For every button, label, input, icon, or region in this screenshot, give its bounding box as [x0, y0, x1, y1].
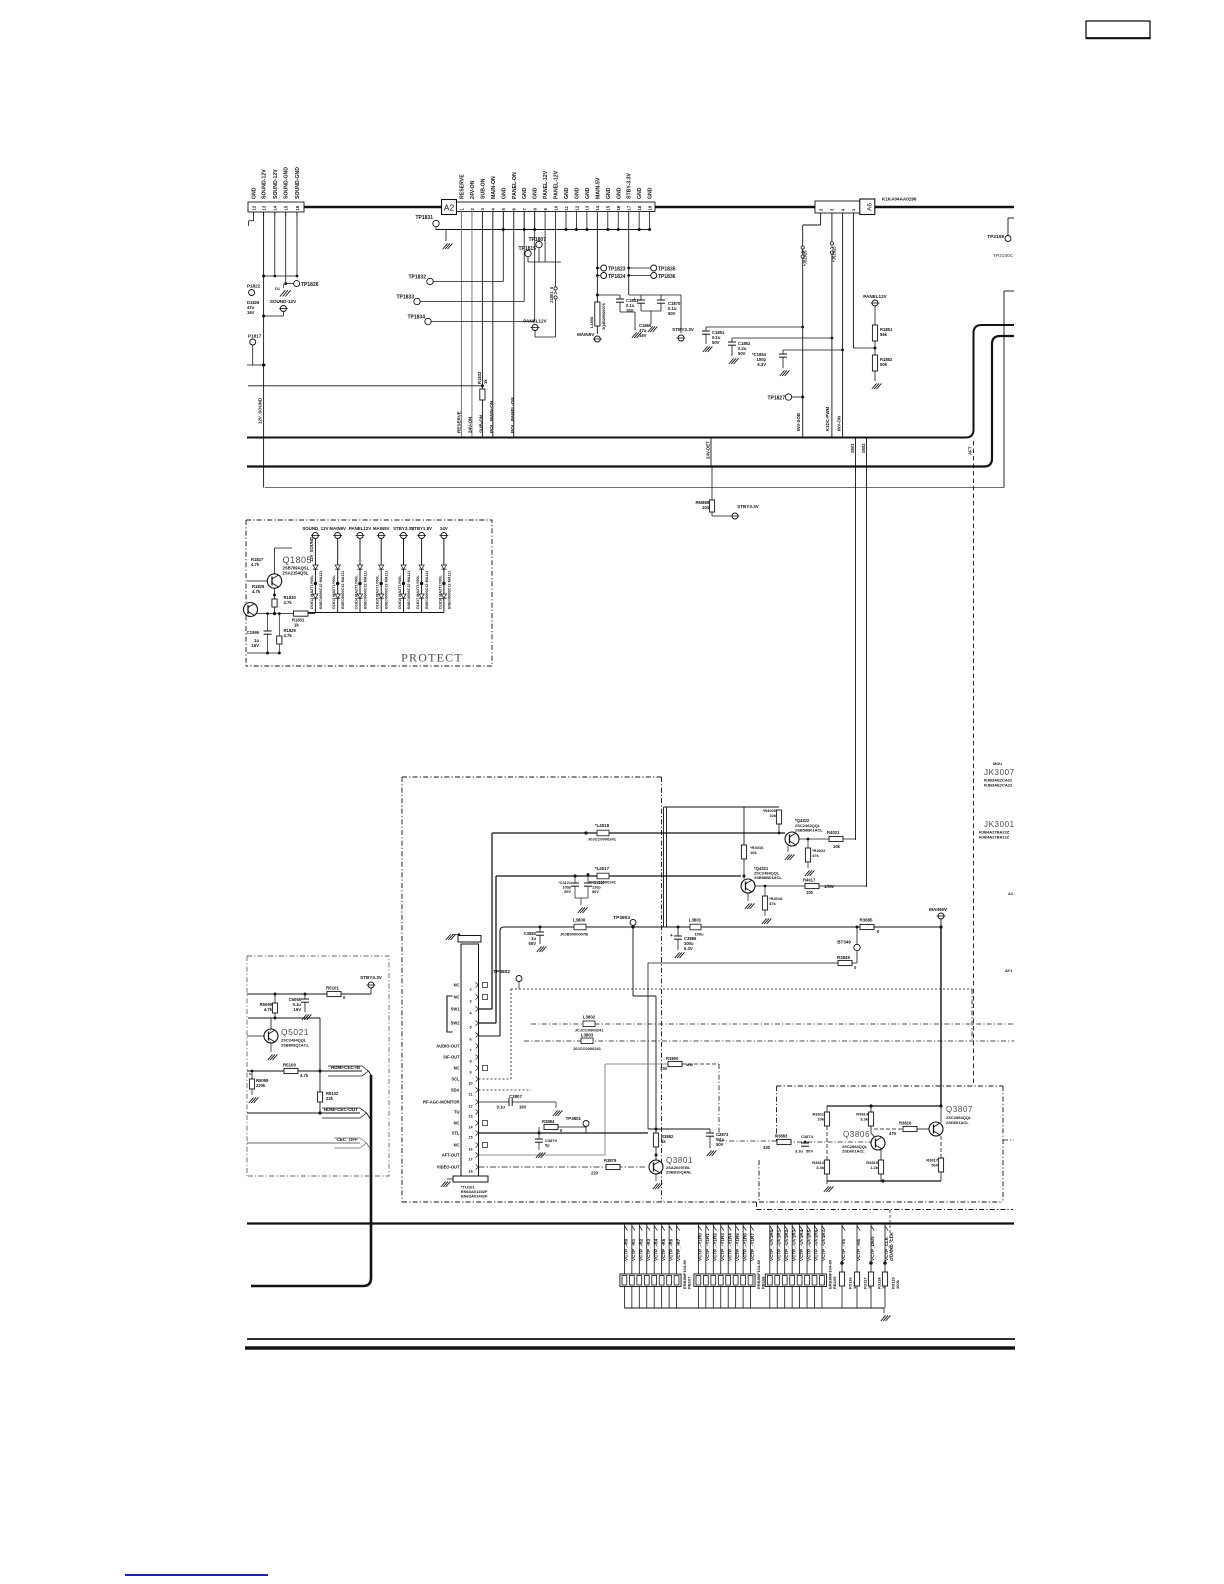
svg-text:MW: MW — [686, 1062, 693, 1067]
svg-text:13: 13 — [261, 205, 266, 210]
svg-text:D1817 MA2T1Y00L: D1817 MA2T1Y00L — [416, 575, 420, 609]
svg-text:PANEL-ON: PANEL-ON — [512, 172, 518, 199]
svg-text:4.7k: 4.7k — [284, 600, 293, 605]
svg-text:C3807: C3807 — [509, 1094, 522, 1099]
svg-text:POL_PANEL-ON: POL_PANEL-ON — [510, 397, 515, 433]
svg-text:TP1827: TP1827 — [767, 396, 785, 402]
svg-text:220k: 220k — [256, 1083, 266, 1088]
svg-text:100p: 100p — [562, 886, 571, 890]
svg-text:6: 6 — [469, 1038, 471, 1042]
svg-text:JK3007: JK3007 — [984, 768, 1015, 777]
svg-text:VCTP_-R7: VCTP_-R7 — [676, 1238, 681, 1261]
svg-text:GND: GND — [616, 187, 622, 199]
svg-text:NC: NC — [454, 1143, 460, 1148]
svg-text:D1815 MA2T1Y00L: D1815 MA2T1Y00L — [376, 575, 380, 609]
svg-text:+: + — [633, 297, 636, 303]
svg-text:2SB58B01ACL: 2SB58B01ACL — [754, 875, 782, 880]
svg-text:+: + — [670, 933, 673, 939]
svg-text:R4021: R4021 — [827, 830, 840, 835]
svg-text:12V_SOUND: 12V_SOUND — [258, 398, 263, 424]
svg-text:TP1833: TP1833 — [396, 295, 414, 301]
svg-text:K1DC-PWM: K1DC-PWM — [825, 407, 830, 431]
svg-text:3.3k: 3.3k — [860, 1117, 869, 1122]
svg-text:R3816: R3816 — [899, 1121, 912, 1126]
svg-text:VCTP_-R4: VCTP_-R4 — [653, 1238, 658, 1261]
svg-text:24V-ON: 24V-ON — [468, 416, 473, 433]
svg-text:4.7k: 4.7k — [252, 589, 261, 594]
svg-text:INV-SOB: INV-SOB — [796, 413, 801, 431]
svg-text:50V: 50V — [592, 890, 599, 894]
svg-text:MAIN-5V: MAIN-5V — [595, 177, 601, 199]
svg-text:17: 17 — [468, 1158, 472, 1162]
svg-text:R5101: R5101 — [326, 986, 339, 991]
svg-text:R3849: R3849 — [837, 955, 850, 960]
svg-text:EN63A01402F: EN63A01402F — [461, 1194, 488, 1199]
svg-text:1k: 1k — [483, 379, 488, 384]
svg-text:VCTP_-Y1R4: VCTP_-Y1R4 — [727, 1233, 732, 1261]
svg-text:P1822: P1822 — [247, 284, 261, 289]
svg-text:A2: A2 — [444, 203, 455, 213]
svg-text:C1999: C1999 — [247, 630, 260, 635]
svg-text:B0EC0000C12 MA111: B0EC0000C12 MA111 — [447, 571, 451, 609]
svg-text:10k: 10k — [769, 813, 776, 818]
svg-text:TP1832: TP1832 — [408, 275, 426, 281]
svg-text:2SB810QANL: 2SB810QANL — [666, 1170, 692, 1175]
svg-text:9: 9 — [469, 1071, 471, 1075]
svg-text:1.2k: 1.2k — [870, 1165, 879, 1170]
svg-text:PANEL12V: PANEL12V — [863, 294, 887, 299]
svg-text:220: 220 — [591, 1171, 599, 1176]
svg-text:TP1823: TP1823 — [608, 267, 626, 273]
svg-text:*J51925: *J51925 — [803, 250, 808, 266]
svg-text:TP1824: TP1824 — [608, 274, 626, 280]
svg-text:RJB4A27BA22Z: RJB4A27BA22Z — [979, 835, 1010, 840]
svg-text:2SA2154QSL: 2SA2154QSL — [283, 571, 310, 576]
svg-text:0: 0 — [560, 1128, 563, 1133]
svg-text:4.7k: 4.7k — [284, 633, 293, 638]
svg-text:GND: GND — [648, 187, 654, 199]
svg-text:INV-ON: INV-ON — [837, 416, 842, 431]
svg-text:RF-AGC-MONITOR: RF-AGC-MONITOR — [423, 1100, 460, 1105]
svg-text:24V-DET: 24V-DET — [715, 460, 716, 461]
svg-text:STBY3.3V: STBY3.3V — [672, 327, 695, 332]
svg-text:VCTP_-R2: VCTP_-R2 — [639, 1238, 644, 1261]
svg-text:VCTP_-UV1R5: VCTP_-UV1R5 — [806, 1229, 811, 1261]
svg-text:0: 0 — [854, 965, 857, 970]
svg-text:B0EC0000C12 MA111: B0EC0000C12 MA111 — [385, 571, 389, 609]
svg-text:2: 2 — [469, 988, 471, 992]
svg-text:*J51923: *J51923 — [832, 246, 837, 262]
svg-text:L3803: L3803 — [581, 1033, 594, 1038]
svg-text:16V: 16V — [247, 310, 255, 315]
svg-text:SOUND_12V: SOUND_12V — [302, 526, 328, 531]
svg-text:GND: GND — [522, 187, 528, 199]
svg-text:RB108: RB108 — [761, 1276, 766, 1289]
svg-text:TP3803: TP3803 — [613, 915, 630, 921]
svg-text:GND: GND — [585, 187, 591, 199]
svg-text:16V: 16V — [252, 643, 260, 648]
svg-text:J1801_0: J1801_0 — [549, 286, 554, 303]
svg-text:22k: 22k — [326, 1096, 334, 1101]
svg-text:R1832: R1832 — [477, 371, 482, 384]
svg-text:24V: 24V — [440, 526, 448, 531]
svg-text:SW1: SW1 — [451, 1007, 461, 1012]
svg-text:12: 12 — [468, 1105, 472, 1109]
svg-text:4.7k: 4.7k — [264, 1007, 273, 1012]
svg-text:SOUND-GND: SOUND-GND — [284, 167, 290, 199]
svg-text:L1806: L1806 — [589, 316, 594, 328]
svg-text:13: 13 — [468, 1115, 472, 1119]
svg-text:120p: 120p — [592, 886, 601, 890]
svg-text:10k: 10k — [817, 1117, 824, 1122]
svg-text:MOU: MOU — [993, 762, 1002, 766]
svg-text:RESERVE: RESERVE — [457, 411, 462, 433]
svg-text:16: 16 — [468, 1148, 472, 1152]
svg-text:GND: GND — [501, 187, 507, 199]
svg-text:330: 330 — [660, 1066, 668, 1071]
svg-text:GND: GND — [564, 187, 570, 199]
svg-text:1/5W: 1/5W — [824, 884, 834, 889]
svg-text:50V: 50V — [712, 340, 720, 345]
svg-text:47k: 47k — [812, 853, 819, 858]
svg-text:12: 12 — [251, 205, 256, 210]
svg-text:R3885: R3885 — [860, 918, 873, 923]
svg-text:TP1831: TP1831 — [415, 215, 433, 221]
svg-text:2SB58B01ACL: 2SB58B01ACL — [795, 828, 823, 833]
svg-text:50k: 50k — [880, 362, 888, 367]
svg-text:STL: STL — [452, 1131, 460, 1136]
svg-text:0.1u: 0.1u — [497, 1105, 506, 1110]
svg-text:MAIN9V: MAIN9V — [329, 526, 346, 531]
svg-text:STBY-3.3V: STBY-3.3V — [627, 173, 633, 199]
svg-text:SCL: SCL — [451, 1077, 460, 1082]
svg-text:VCTP_-V5: VCTP_-V5 — [841, 1239, 846, 1261]
svg-text:5: 5 — [469, 1026, 471, 1030]
svg-text:3: 3 — [469, 1000, 471, 1004]
svg-text:L3800: L3800 — [573, 918, 586, 923]
svg-text:2SD601ACL: 2SD601ACL — [946, 1120, 969, 1125]
svg-text:GND: GND — [606, 187, 612, 199]
svg-text:VCTP_-UV1R6: VCTP_-UV1R6 — [814, 1229, 819, 1261]
svg-text:C3874: C3874 — [801, 1134, 814, 1139]
svg-text:VCTP_-UV1R7: VCTP_-UV1R7 — [821, 1229, 826, 1261]
svg-text:5p: 5p — [545, 1143, 550, 1148]
svg-text:VCTP_-Y1R2: VCTP_-Y1R2 — [713, 1233, 718, 1261]
svg-text:VCTP_-Y1R5: VCTP_-Y1R5 — [735, 1233, 740, 1261]
svg-text:6.3V: 6.3V — [757, 362, 766, 367]
svg-text:VCTP_-R3: VCTP_-R3 — [646, 1238, 651, 1261]
svg-text:PROTECT: PROTECT — [401, 651, 463, 665]
svg-text:J0JCC0000241: J0JCC0000241 — [588, 837, 617, 842]
svg-text:B0EC0000C12 MA111: B0EC0000C12 MA111 — [425, 571, 429, 609]
svg-text:R3883: R3883 — [775, 1134, 788, 1139]
svg-text:17: 17 — [627, 205, 632, 210]
svg-text:SOUND-GND: SOUND-GND — [295, 167, 301, 199]
svg-text:AUDIO-OUT: AUDIO-OUT — [436, 1044, 460, 1049]
svg-text:6.3V: 6.3V — [684, 946, 693, 951]
svg-text:VCTP_-UV1R0: VCTP_-UV1R0 — [769, 1229, 774, 1261]
svg-text:VCTP_-UV1R2: VCTP_-UV1R2 — [784, 1229, 789, 1261]
svg-text:4.7k: 4.7k — [300, 1073, 309, 1078]
svg-text:1k: 1k — [294, 623, 299, 628]
svg-text:1k: 1k — [661, 1139, 666, 1144]
svg-text:BT349: BT349 — [837, 940, 851, 945]
svg-text:MAIN5V: MAIN5V — [373, 526, 390, 531]
svg-text:SOUND-12V: SOUND-12V — [262, 169, 268, 199]
svg-text:14: 14 — [273, 205, 278, 210]
svg-text:L3801: L3801 — [689, 918, 702, 923]
svg-text:*: * — [249, 1073, 251, 1079]
svg-text:TP1834: TP1834 — [407, 315, 425, 321]
svg-text:D1: D1 — [275, 287, 280, 291]
svg-text:D1818 MA2T1Y00L: D1818 MA2T1Y00L — [438, 575, 442, 609]
svg-text:R3879: R3879 — [604, 1158, 617, 1163]
svg-text:GND: GND — [533, 187, 539, 199]
svg-text:4.7k: 4.7k — [251, 562, 260, 567]
svg-text:0: 0 — [877, 929, 880, 934]
svg-text:18: 18 — [637, 205, 642, 210]
svg-text:560: 560 — [931, 1163, 938, 1168]
svg-text:GND: GND — [574, 187, 580, 199]
svg-text:VCTP_-R6: VCTP_-R6 — [668, 1238, 673, 1261]
svg-text:A6: A6 — [867, 203, 874, 211]
svg-text:TP2109: TP2109 — [987, 234, 1004, 240]
svg-text:*L4018: *L4018 — [595, 823, 610, 828]
svg-text:VCTP_-UV1R4: VCTP_-UV1R4 — [799, 1229, 804, 1261]
svg-text:100: 100 — [806, 890, 814, 895]
svg-text:470: 470 — [889, 1131, 897, 1136]
svg-text:15: 15 — [284, 205, 289, 210]
svg-text:PANEL-12V: PANEL-12V — [554, 170, 560, 199]
svg-text:P1817: P1817 — [248, 334, 262, 339]
svg-text:50V: 50V — [806, 1149, 813, 1154]
svg-text:RESERVE: RESERVE — [460, 174, 466, 199]
svg-text:SUB-ON: SUB-ON — [479, 414, 484, 433]
svg-text:3.3u: 3.3u — [795, 1149, 804, 1154]
svg-text:SDA: SDA — [451, 1088, 460, 1093]
svg-text:VCTP_-UV1R1: VCTP_-UV1R1 — [776, 1229, 781, 1261]
svg-text:Q1805: Q1805 — [283, 555, 313, 565]
svg-text:56k: 56k — [880, 332, 888, 337]
svg-text:PANEL12V: PANEL12V — [349, 526, 371, 531]
svg-text:STBY1.8V: STBY1.8V — [411, 526, 432, 531]
svg-text:50V: 50V — [564, 890, 571, 894]
svg-text:SW1: SW1 — [850, 443, 855, 453]
svg-text:24V-ON: 24V-ON — [470, 180, 476, 199]
svg-text:JQ4B20000076: JQ4B20000076 — [602, 303, 606, 330]
svg-text:L3802: L3802 — [583, 1015, 596, 1020]
svg-text:AFT: AFT — [968, 446, 973, 455]
svg-text:11: 11 — [564, 205, 569, 210]
svg-text:50V: 50V — [529, 941, 537, 946]
svg-text:16V: 16V — [294, 1007, 302, 1012]
svg-text:POL_MAIN-ON: POL_MAIN-ON — [489, 400, 494, 433]
svg-text:VCTP_-H5: VCTP_-H5 — [856, 1238, 861, 1261]
svg-text:STBY3.3V: STBY3.3V — [360, 975, 383, 980]
svg-text:Q5021: Q5021 — [281, 1027, 309, 1037]
svg-text:MAIN5V: MAIN5V — [577, 332, 595, 337]
svg-text:R3884: R3884 — [542, 1119, 555, 1124]
svg-text:R5100: R5100 — [283, 1063, 296, 1068]
svg-text:VCTP_-Y1R7: VCTP_-Y1R7 — [750, 1233, 755, 1261]
svg-text:B0EC0000C12 MA111: B0EC0000C12 MA111 — [407, 571, 411, 609]
svg-text:50V: 50V — [668, 311, 676, 316]
svg-text:*L4017: *L4017 — [595, 866, 610, 871]
svg-text:SUB-ON: SUB-ON — [480, 178, 486, 199]
svg-text:SOUND-12V: SOUND-12V — [273, 169, 279, 199]
svg-text:VCTP_-UV1R3: VCTP_-UV1R3 — [791, 1229, 796, 1261]
svg-text:Q3806: Q3806 — [843, 1130, 870, 1139]
svg-text:10k: 10k — [750, 850, 757, 855]
svg-text:2SD601ACL: 2SD601ACL — [842, 1149, 865, 1154]
svg-text:330: 330 — [763, 1145, 771, 1150]
svg-text:14: 14 — [595, 205, 600, 210]
svg-text:MAIN-ON: MAIN-ON — [491, 176, 497, 199]
svg-text:STBY3.3V: STBY3.3V — [737, 504, 760, 509]
svg-text:SOUND-12V: SOUND-12V — [270, 299, 297, 304]
svg-text:16: 16 — [616, 205, 621, 210]
svg-text:18: 18 — [468, 1170, 472, 1174]
svg-text:16: 16 — [295, 205, 300, 210]
svg-text:RJB3AE2CA22: RJB3AE2CA22 — [984, 783, 1013, 788]
svg-text:PANEL-12V: PANEL-12V — [543, 170, 549, 199]
svg-text:47k: 47k — [769, 901, 776, 906]
svg-text:VCTP_-R1: VCTP_-R1 — [631, 1238, 636, 1261]
svg-text:10: 10 — [468, 1082, 472, 1086]
svg-text:104: 104 — [702, 505, 710, 510]
svg-text:TP3801: TP3801 — [566, 1116, 582, 1121]
svg-text:VCTP_-Y1R0: VCTP_-Y1R0 — [698, 1233, 703, 1261]
svg-text:NC: NC — [454, 983, 460, 988]
svg-text:VIDEO-OUT: VIDEO-OUT — [437, 1165, 460, 1170]
svg-text:R3800: R3800 — [666, 1056, 679, 1061]
svg-text:SW2: SW2 — [451, 1021, 461, 1026]
svg-text:J0JCC0000241: J0JCC0000241 — [573, 1046, 602, 1051]
svg-text:8: 8 — [469, 1060, 471, 1064]
svg-text:Q3807: Q3807 — [946, 1105, 973, 1114]
svg-text:VCTP_-R5: VCTP_-R5 — [661, 1238, 666, 1261]
svg-text:11: 11 — [468, 1093, 472, 1097]
svg-text:19: 19 — [647, 205, 652, 210]
svg-text:10: 10 — [553, 205, 558, 210]
svg-text:GND: GND — [252, 187, 258, 199]
svg-text:B0EC0000C12 MA111: B0EC0000C12 MA111 — [341, 571, 345, 609]
svg-text:NC: NC — [454, 1066, 460, 1071]
svg-text:D1814 MA2T1Y00L: D1814 MA2T1Y00L — [355, 575, 359, 609]
svg-text:15: 15 — [468, 1136, 472, 1140]
svg-text:D1812 MA2T1Y00L: D1812 MA2T1Y00L — [310, 575, 314, 609]
svg-text:D1813 MA2T1Y00L: D1813 MA2T1Y00L — [332, 575, 336, 609]
svg-text:24V-DET: 24V-DET — [706, 441, 711, 459]
svg-text:12: 12 — [574, 205, 579, 210]
svg-text:50V: 50V — [716, 1142, 724, 1147]
svg-text:A1: A1 — [1008, 891, 1014, 896]
svg-text:TU: TU — [454, 1110, 460, 1115]
svg-text:13: 13 — [585, 205, 590, 210]
svg-text:NC: NC — [454, 995, 460, 1000]
svg-text:2SB808Q1ACL: 2SB808Q1ACL — [281, 1043, 310, 1048]
svg-text:TP1835: TP1835 — [658, 267, 676, 273]
svg-text:VCTP_-Y1R3: VCTP_-Y1R3 — [720, 1233, 725, 1261]
svg-text:100k: 100k — [895, 1279, 900, 1289]
svg-text:PANEL12V: PANEL12V — [523, 319, 547, 324]
svg-text:AY1: AY1 — [1005, 968, 1013, 973]
svg-text:VCTP_-Y1R6: VCTP_-Y1R6 — [742, 1233, 747, 1261]
svg-text:*C4120: *C4120 — [592, 881, 605, 885]
svg-text:B0EC0000C12 MA111: B0EC0000C12 MA111 — [364, 571, 368, 609]
svg-text:RB109: RB109 — [832, 1276, 837, 1289]
svg-text:Q3801: Q3801 — [666, 1156, 693, 1165]
svg-text:B0EC0000C12 MA111: B0EC0000C12 MA111 — [319, 571, 323, 609]
svg-text:SIF-OUT: SIF-OUT — [443, 1055, 460, 1060]
svg-text:15: 15 — [606, 205, 611, 210]
svg-text:50V: 50V — [738, 351, 746, 356]
svg-text:7: 7 — [469, 1049, 471, 1053]
svg-text:GND: GND — [637, 187, 643, 199]
svg-text:SW2: SW2 — [861, 443, 866, 453]
svg-text:TP1836: TP1836 — [658, 274, 676, 280]
svg-text:VCTP_-R0: VCTP_-R0 — [624, 1238, 629, 1261]
svg-text:J0JB0000007B: J0JB0000007B — [560, 932, 588, 937]
svg-text:10k: 10k — [833, 844, 841, 849]
svg-text:TP1826: TP1826 — [301, 282, 319, 288]
svg-text:D1816 MA2T1Y00L: D1816 MA2T1Y00L — [398, 575, 402, 609]
svg-text:AFT-OUT: AFT-OUT — [442, 1153, 460, 1158]
svg-text:*C4121: *C4121 — [558, 881, 571, 885]
svg-text:RB107: RB107 — [687, 1276, 692, 1289]
svg-text:0: 0 — [343, 995, 346, 1000]
svg-text:JK3001: JK3001 — [984, 820, 1015, 829]
svg-text:16V: 16V — [519, 1105, 527, 1110]
svg-text:MAIN9V: MAIN9V — [929, 907, 948, 913]
svg-text:R4017: R4017 — [803, 878, 816, 883]
svg-text:NC: NC — [454, 1121, 460, 1126]
svg-text:K1KA04AA0196: K1KA04AA0196 — [882, 197, 917, 202]
svg-text:TP2100C: TP2100C — [993, 253, 1014, 259]
svg-text:16V: 16V — [639, 333, 647, 338]
svg-text:VCTP_-Y1R1: VCTP_-Y1R1 — [705, 1233, 710, 1261]
svg-text:VCTP_DEN: VCTP_DEN — [870, 1236, 875, 1261]
svg-text:3.3k: 3.3k — [816, 1165, 825, 1170]
